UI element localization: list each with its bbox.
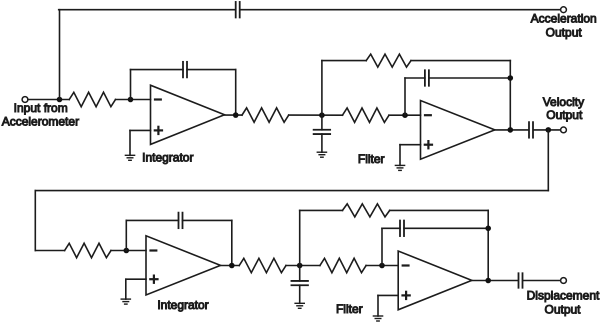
svg-text:Filter: Filter (336, 302, 363, 316)
svg-text:Integrator: Integrator (157, 298, 208, 312)
svg-text:Integrator: Integrator (142, 151, 193, 165)
svg-text:Acceleration: Acceleration (531, 12, 597, 26)
svg-text:Velocity: Velocity (543, 95, 584, 109)
svg-text:Accelerometer: Accelerometer (2, 115, 79, 129)
svg-text:Output: Output (546, 108, 583, 122)
svg-text:Output: Output (546, 25, 583, 39)
svg-text:Displacement: Displacement (527, 288, 600, 302)
svg-text:Output: Output (544, 303, 581, 317)
svg-text:Input from: Input from (14, 101, 68, 115)
svg-text:Filter: Filter (358, 152, 385, 166)
